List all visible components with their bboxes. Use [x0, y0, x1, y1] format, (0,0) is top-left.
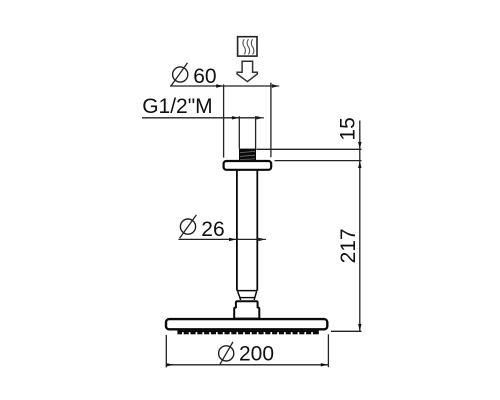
right vertical dimension line — [358, 121, 361, 332]
svg-text:60: 60 — [193, 65, 216, 88]
svg-text:G1/2"M: G1/2"M — [142, 95, 212, 118]
dimension d26 line — [179, 238, 267, 241]
pipe end cap line — [237, 290, 257, 292]
d60 extension line right — [270, 83, 272, 158]
svg-text:26: 26 — [201, 218, 224, 241]
d60 diameter symbol — [171, 63, 188, 86]
extension line 15-top (thread top level) — [256, 148, 361, 150]
flow direction hollow down-arrow icon — [237, 61, 257, 81]
thread extension line left — [238, 116, 240, 148]
shower head disc — [166, 319, 327, 329]
G1/2 leader line — [142, 116, 264, 119]
extension line head bottom level — [331, 330, 362, 332]
d200 extension line left — [165, 335, 167, 368]
shower arm pipe left wall — [236, 170, 238, 290]
dimension d200 line — [166, 363, 328, 366]
d200 diameter symbol — [219, 342, 234, 365]
spray nozzles row — [177, 330, 318, 334]
shower arm pipe right wall — [256, 170, 258, 290]
svg-text:15: 15 — [337, 117, 360, 140]
threaded nipple G1/2 (hatched block) — [239, 149, 256, 162]
d200 extension line right — [327, 334, 329, 367]
svg-text:217: 217 — [337, 228, 360, 263]
dimension d60 line — [170, 84, 279, 87]
ceiling flange (rosette) — [224, 161, 272, 170]
d26 diameter symbol — [180, 215, 197, 238]
d60 extension line left — [223, 84, 225, 157]
extension line 15-bottom (flange top level) — [275, 160, 362, 162]
connector tapered neck — [238, 291, 257, 300]
connector block — [234, 301, 259, 318]
ceiling water supply symbol (square with wavy lines) — [238, 37, 257, 56]
thread extension line right — [255, 116, 257, 148]
svg-text:200: 200 — [239, 342, 274, 365]
